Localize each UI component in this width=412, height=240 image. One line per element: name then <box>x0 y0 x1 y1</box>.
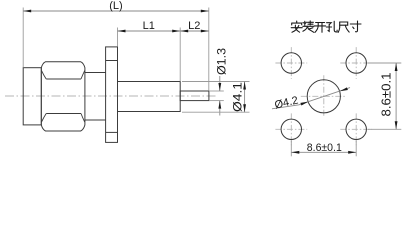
dimension Ø4.1 extension line top <box>182 81 250 83</box>
dimension L1 line <box>118 30 181 32</box>
安 <box>291 21 302 32</box>
dimension Ø4.1 arrow bottom <box>243 104 246 112</box>
rear cylinder top line <box>85 72 106 74</box>
mounting hole bottom-right <box>346 119 366 139</box>
Ø4.2 leader arrow right <box>340 87 348 91</box>
dimension Ø1.3 extension stub bottom <box>209 100 224 102</box>
dimension Ø1.3 arrow top <box>218 83 221 91</box>
Ø4.2 leader arrow left <box>300 102 308 106</box>
dimension Ø4.1 arrow top <box>243 82 246 90</box>
center hole Ø4.2 <box>307 80 340 113</box>
mounting hole top-left <box>281 53 301 73</box>
dimension 8.6±0.1 bottom arrow left <box>291 151 299 154</box>
dimension Ø1.3 extension stub top <box>209 90 224 92</box>
dimension (L) arrow left <box>23 10 31 13</box>
svg-text:8.6±0.1: 8.6±0.1 <box>307 142 342 154</box>
dimension 8.6±0.1 bottom line <box>291 151 356 153</box>
svg-text:(L): (L) <box>109 0 122 12</box>
dimension L2 arrow left <box>180 30 188 33</box>
svg-text:L1: L1 <box>143 20 155 32</box>
title 安装开孔尺寸 (drawn as strokes) <box>291 21 361 32</box>
center pin <box>180 91 209 101</box>
dimension 8.6±0.1 right extension top <box>368 62 401 64</box>
hex chamfer top-left <box>42 71 47 79</box>
svg-text:Ø4.1: Ø4.1 <box>231 82 245 112</box>
hex facet line upper <box>46 78 81 80</box>
dimension L1 arrow right <box>172 30 180 33</box>
dimension (L) line <box>23 10 209 12</box>
svg-text:Ø1.3: Ø1.3 <box>215 48 229 75</box>
rear cylinder bottom line <box>85 119 106 121</box>
mounting hole top-right <box>346 53 366 73</box>
dimension 8.6±0.1 bottom arrow right <box>348 151 356 154</box>
hex facet line lower <box>46 113 81 115</box>
dimension (L) / L2 extension line right <box>208 8 210 91</box>
center hole crosshair <box>301 75 347 117</box>
dimension 8.6±0.1 right arrow top <box>395 63 398 71</box>
dimension 8.6±0.1 right arrow bottom <box>395 121 398 129</box>
dimension L2 arrow right <box>201 30 209 33</box>
dimension 8.6±0.1 bottom extension right <box>355 141 357 157</box>
centerline (side view axis) <box>5 95 216 97</box>
装 <box>303 21 314 32</box>
flange flat edge upper <box>106 60 118 62</box>
孔 <box>326 21 337 32</box>
dimension L2 line <box>180 30 209 32</box>
dimension Ø1.3 line lower <box>219 101 221 116</box>
dimension 8.6±0.1 bottom extension left <box>290 141 292 157</box>
尺 <box>338 22 349 32</box>
dimension L1 arrow left <box>118 30 126 33</box>
dimension (L) extension line left <box>22 8 24 68</box>
寸 <box>350 21 361 32</box>
mounting hole bottom-left crosshair <box>275 113 307 145</box>
connector interface barrel <box>23 68 41 125</box>
dimension Ø1.3 arrow bottom <box>218 101 221 109</box>
dimension L1 extension line <box>117 28 119 47</box>
dimension Ø1.3 line upper <box>219 76 221 91</box>
svg-text:8.6±0.1: 8.6±0.1 <box>380 72 394 116</box>
开 <box>314 23 325 33</box>
dimension (L) arrow right <box>201 10 209 13</box>
svg-text:L2: L2 <box>188 20 200 32</box>
threaded body <box>118 82 181 112</box>
hex chamfer bottom-right <box>81 114 85 123</box>
hex nut outline <box>41 62 85 131</box>
Ø4.2 leader line <box>272 88 350 109</box>
dimension Ø4.1 line <box>244 82 246 113</box>
flange flat edge lower <box>106 131 118 133</box>
hex chamfer top-right <box>81 71 85 79</box>
mounting flange <box>106 47 118 142</box>
dimension Ø4.1 extension line bottom <box>182 111 250 113</box>
dimension 8.6±0.1 right extension bottom <box>368 128 401 130</box>
dimension L2 extension line <box>179 28 181 82</box>
mounting hole bottom-right crosshair <box>340 113 372 145</box>
hex chamfer bottom-left <box>42 114 47 123</box>
mounting hole top-left crosshair <box>275 47 307 79</box>
dimension 8.6±0.1 right line <box>395 63 397 129</box>
mounting hole top-right crosshair <box>340 47 372 79</box>
mounting hole bottom-left <box>281 119 301 139</box>
